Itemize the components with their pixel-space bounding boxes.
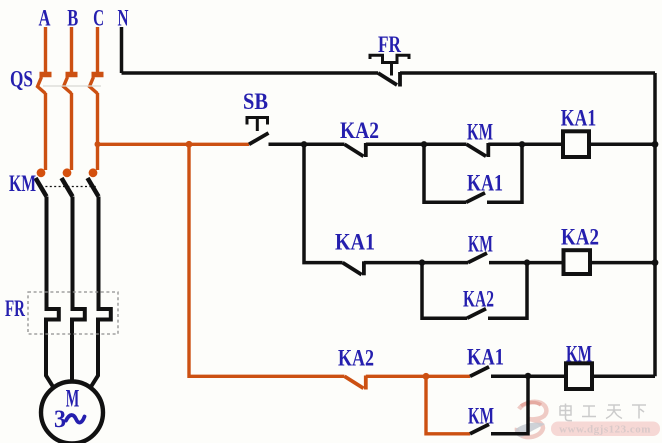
svg-text:KA2: KA2 — [338, 346, 374, 371]
svg-text:KM: KM — [467, 120, 493, 145]
svg-text:N: N — [118, 6, 129, 31]
svg-text:FR: FR — [5, 296, 25, 321]
svg-text:KM: KM — [468, 404, 494, 429]
svg-text:KA1: KA1 — [335, 230, 375, 255]
svg-text:B: B — [67, 6, 78, 31]
svg-text:KM: KM — [468, 232, 493, 257]
svg-text:M: M — [66, 386, 80, 413]
svg-text:KA2: KA2 — [561, 225, 599, 250]
svg-text:www.dgjs123.com: www.dgjs123.com — [559, 424, 651, 436]
svg-text:C: C — [93, 6, 104, 31]
svg-text:FR: FR — [378, 32, 401, 57]
svg-text:QS: QS — [10, 67, 33, 92]
svg-text:KM: KM — [9, 171, 36, 196]
svg-text:KA1: KA1 — [561, 106, 597, 131]
svg-text:KA1: KA1 — [467, 171, 503, 196]
svg-text:A: A — [39, 5, 51, 30]
svg-text:3: 3 — [54, 406, 66, 433]
svg-text:KM: KM — [566, 342, 592, 367]
svg-text:SB: SB — [243, 89, 268, 114]
svg-text:KA1: KA1 — [467, 345, 504, 370]
svg-text:KA2: KA2 — [463, 287, 494, 312]
svg-text:KA2: KA2 — [340, 118, 379, 143]
